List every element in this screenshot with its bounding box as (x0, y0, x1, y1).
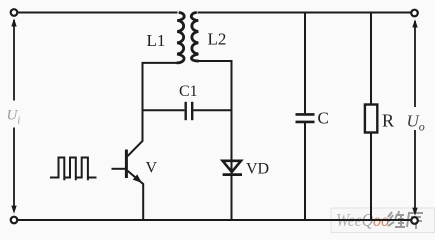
svg-text:C: C (318, 109, 329, 128)
svg-text:R: R (382, 111, 394, 131)
svg-text:L1: L1 (147, 31, 166, 50)
svg-text:VD: VD (246, 161, 269, 178)
svg-text:C1: C1 (179, 83, 198, 100)
svg-text:L2: L2 (208, 30, 227, 49)
svg-text:V: V (146, 160, 158, 177)
